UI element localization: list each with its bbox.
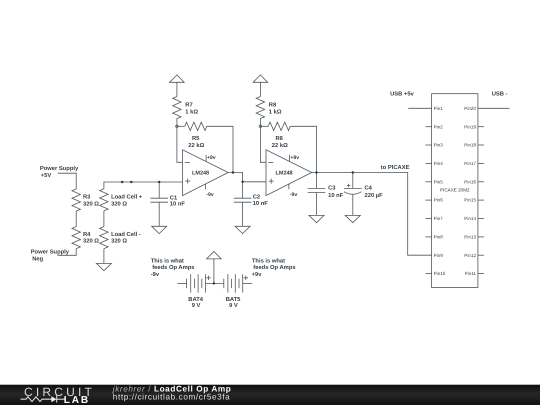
svg-text:R5: R5: [192, 136, 200, 142]
svg-text:320 Ω: 320 Ω: [111, 238, 127, 245]
svg-text:USB -: USB -: [492, 91, 508, 98]
svg-text:Neg: Neg: [32, 256, 43, 262]
svg-text:LAB: LAB: [64, 395, 90, 405]
svg-text:+9v: +9v: [252, 271, 263, 278]
svg-text:Pin8: Pin8: [434, 235, 444, 240]
svg-text:-9v: -9v: [290, 192, 298, 198]
svg-text:Pin19: Pin19: [464, 124, 476, 129]
svg-text:C3: C3: [328, 185, 336, 192]
svg-text:Pin20: Pin20: [464, 106, 476, 111]
svg-text:Pin9: Pin9: [434, 253, 444, 258]
svg-text:This is what: This is what: [151, 258, 184, 265]
svg-text:1 kΩ: 1 kΩ: [269, 108, 282, 115]
svg-text:Pin18: Pin18: [464, 143, 476, 148]
svg-text:Pin10: Pin10: [434, 271, 446, 276]
svg-text:-9v: -9v: [206, 192, 214, 198]
svg-text:Pin14: Pin14: [464, 216, 476, 221]
svg-text:Pin1: Pin1: [434, 106, 444, 111]
svg-text:R6: R6: [276, 135, 284, 142]
svg-text:22 kΩ: 22 kΩ: [188, 142, 204, 149]
svg-text:9 V: 9 V: [192, 302, 201, 309]
svg-text:22 kΩ: 22 kΩ: [272, 142, 288, 149]
svg-text:Pin5: Pin5: [434, 179, 444, 184]
svg-text:R4: R4: [83, 232, 91, 238]
svg-text:10 nF: 10 nF: [253, 200, 269, 207]
svg-text:Power Supply: Power Supply: [31, 248, 70, 255]
svg-text:This is what: This is what: [252, 258, 285, 265]
svg-text:Pin13: Pin13: [464, 235, 476, 240]
svg-text:10 nF: 10 nF: [170, 201, 186, 208]
svg-text:LM248: LM248: [192, 171, 209, 177]
svg-text:220 µF: 220 µF: [365, 192, 384, 199]
svg-text:+5V: +5V: [41, 173, 52, 179]
svg-text:320 Ω: 320 Ω: [83, 238, 99, 245]
svg-text:LM248: LM248: [276, 171, 293, 177]
svg-text:Pin12: Pin12: [464, 253, 476, 258]
svg-text:feeds Op Amps: feeds Op Amps: [152, 264, 194, 271]
svg-text:Pin6: Pin6: [434, 198, 444, 203]
svg-text:C2: C2: [253, 194, 260, 201]
svg-text:Pin16: Pin16: [464, 179, 476, 184]
svg-text:C4: C4: [365, 185, 373, 192]
svg-text:Pin7: Pin7: [434, 216, 444, 221]
svg-text:Pin3: Pin3: [434, 143, 444, 148]
svg-text:R8: R8: [269, 101, 277, 108]
svg-text:+9v: +9v: [207, 155, 216, 161]
svg-text:Pin11: Pin11: [465, 271, 477, 276]
svg-text:+9v: +9v: [290, 155, 299, 161]
svg-text:PICAXE 20M2: PICAXE 20M2: [440, 188, 470, 193]
svg-text:Power Supply: Power Supply: [40, 165, 79, 172]
svg-text:320 Ω: 320 Ω: [83, 201, 99, 208]
svg-text:R3: R3: [83, 194, 91, 201]
svg-text:Load Cell -: Load Cell -: [111, 231, 141, 238]
svg-text:10 nF: 10 nF: [328, 192, 344, 199]
svg-text:Pin2: Pin2: [434, 124, 444, 129]
svg-text:320 Ω: 320 Ω: [111, 201, 127, 208]
svg-text:Load Cell +: Load Cell +: [111, 194, 143, 201]
svg-text:USB +5v: USB +5v: [390, 91, 414, 98]
svg-text:feeds Op Amps: feeds Op Amps: [253, 264, 295, 271]
svg-text:Pin15: Pin15: [464, 198, 476, 203]
svg-text:Pin17: Pin17: [464, 161, 476, 166]
svg-text:-9v: -9v: [151, 271, 160, 278]
svg-text:1 kΩ: 1 kΩ: [185, 108, 198, 115]
svg-text:http://circuitlab.com/cr5e3fa: http://circuitlab.com/cr5e3fa: [113, 392, 231, 401]
svg-text:R7: R7: [185, 102, 192, 108]
svg-text:9 V: 9 V: [229, 302, 238, 309]
svg-text:Pin4: Pin4: [434, 161, 444, 166]
svg-text:to PICAXE: to PICAXE: [381, 164, 410, 171]
svg-text:C1: C1: [170, 194, 178, 201]
